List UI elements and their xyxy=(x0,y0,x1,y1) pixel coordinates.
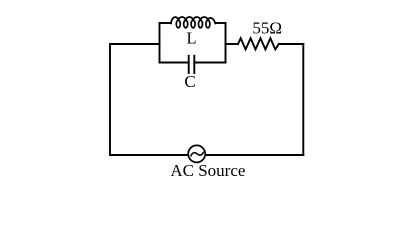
capacitor C left plate xyxy=(188,56,190,73)
wire resistor to right corner xyxy=(279,43,304,45)
wire bottom xyxy=(110,154,303,156)
resistor 55 ohm zigzag xyxy=(238,38,279,49)
AC source circle xyxy=(188,145,205,162)
LC tank box right edge xyxy=(225,23,227,63)
capacitor C right plate xyxy=(193,56,195,73)
wire left top (node between source and LC tank) xyxy=(110,43,160,45)
wire left vertical xyxy=(109,44,111,155)
LC tank box top edge left stub xyxy=(160,22,172,24)
svg-text:AC Source: AC Source xyxy=(170,161,245,180)
svg-text:L: L xyxy=(186,28,196,47)
inductor L loop 4 xyxy=(199,20,203,28)
inductor L coil humps xyxy=(171,17,215,23)
wire right vertical xyxy=(302,44,304,155)
AC source sine symbol xyxy=(191,152,203,156)
LC tank box top edge right stub xyxy=(216,22,226,24)
inductor L loop 1 xyxy=(176,20,180,28)
inductor L loop 3 xyxy=(191,20,195,28)
LC tank box bottom edge left stub (to capacitor) xyxy=(160,62,189,64)
svg-text:55Ω: 55Ω xyxy=(252,19,282,38)
inductor L loop 5 xyxy=(206,20,210,28)
wire box to resistor xyxy=(226,43,239,45)
LC tank box left edge xyxy=(159,23,161,63)
svg-text:C: C xyxy=(184,72,195,91)
inductor L loop 2 xyxy=(184,20,188,28)
LC tank box bottom edge right stub (from capacitor) xyxy=(194,62,225,64)
